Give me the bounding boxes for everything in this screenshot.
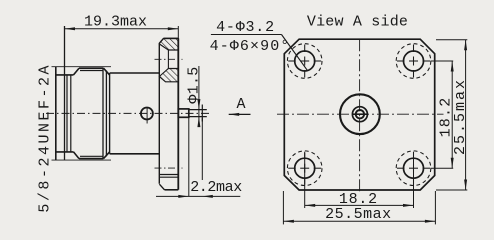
svg-text:Φ1.5: Φ1.5 [186, 66, 203, 103]
wire extension line 19.3max left / body edge [64, 26, 66, 160]
node bolt hole bottom-left [287, 151, 322, 186]
wire dimension line 25.5max bottom [283, 220, 435, 222]
wire body top edge [110, 72, 160, 74]
node view arrow A head [229, 113, 240, 116]
svg-text:4-Φ3.2: 4-Φ3.2 [216, 19, 275, 36]
node bolt hole top-left [287, 44, 322, 79]
wire dimension line 19.3max [65, 28, 179, 30]
node arrowhead 19.3max right [168, 27, 179, 30]
wire flange right face [177, 38, 179, 189]
wire thread cylinder top edge [79, 67, 104, 69]
node arrowhead 18.2 bottom right [403, 204, 414, 207]
wire dimension line 25.5max right [465, 40, 467, 190]
node arrowhead 2.2max right [202, 195, 213, 198]
wire thread runout line 2 [105, 71, 107, 157]
wire extension line 19.3max right [177, 26, 179, 38]
node arrowhead phi1.5 lower [197, 117, 200, 128]
wire extension line 25.5max bottom left [282, 191, 284, 224]
square flange outline [284, 39, 434, 190]
wire thread root line bottom [80, 155, 103, 157]
node dielectric circle [352, 107, 367, 122]
wire extension line 25.5max bottom right [434, 191, 436, 224]
node bolt hole bottom-right [396, 151, 431, 186]
wire flange bottom-left corner chamfer [159, 184, 164, 190]
wire view arrow A line [229, 113, 251, 115]
wire flange top edge [164, 37, 179, 39]
node arrowhead phi1.5 upper [197, 99, 200, 110]
wire thread exit chamfer top [104, 68, 110, 75]
svg-text:A: A [236, 96, 245, 113]
wire bolt hole centerline upper [155, 58, 183, 60]
wire thread major dia thin line bottom [52, 159, 112, 161]
wire flange top-left corner chamfer [159, 38, 163, 43]
wire center pin top edge [189, 109, 207, 111]
node connector outer circle [340, 94, 380, 134]
wire thread exit chamfer bottom [104, 152, 110, 159]
flange section hatch upper block [159, 38, 178, 50]
wire flange bottom edge [165, 189, 179, 191]
node arrowhead 18.2 right top [451, 61, 454, 72]
wire dimension line 18.2 bottom [305, 204, 414, 206]
wire extension line 18.2 bottom left [304, 153, 306, 208]
wire internal bore line 1 [66, 75, 68, 152]
node arrowhead 18.2 right bottom [451, 158, 454, 169]
node bolt hole top-right [396, 44, 431, 79]
svg-text:4-Φ6×90°: 4-Φ6×90° [210, 38, 291, 55]
svg-text:2.2max: 2.2max [190, 179, 242, 196]
node center pin circle [356, 110, 364, 118]
wire dimension line 2.2max [156, 195, 240, 197]
wire thread runout line 1 [102, 68, 104, 158]
wire countersink depth line [167, 50, 169, 69]
wire extension line 2.2max right [201, 118, 203, 180]
wire bolt hole centerline lower [155, 167, 183, 169]
wire dimension line phi1.5 [198, 66, 200, 125]
wire flange left face [158, 43, 160, 183]
wire extension line 18.2 bottom right [413, 153, 415, 208]
flange section hatch lower block [159, 69, 178, 82]
node solder hole circle on body [141, 108, 153, 120]
node arrowhead 19.3max left [65, 27, 76, 30]
wire body step edge [109, 73, 111, 154]
wire extension line 25.5max right top [436, 39, 467, 41]
wire square vertical centerline [359, 39, 361, 193]
wire solder hole vertical centerline [146, 107, 148, 124]
node arrowhead 18.2 bottom left [305, 204, 316, 207]
node arrowhead 25.5max right bottom [464, 180, 467, 191]
wire dimension line 18.2 right [451, 61, 453, 168]
node arrowhead 25.5max right top [464, 40, 467, 51]
svg-text:25.5max: 25.5max [452, 78, 469, 155]
wire internal bore line 2 [70, 75, 72, 152]
svg-text:25.5max: 25.5max [325, 206, 392, 223]
wire thread major dia thin line top [52, 66, 112, 68]
wire front ring bottom edge [56, 151, 74, 153]
svg-text:View A side: View A side [307, 14, 408, 31]
wire horizontal centerline left view [46, 112, 212, 114]
wire flange lower hole line 2 [159, 176, 178, 178]
wire extension line 2.2max left [188, 117, 190, 196]
wire leader line to top-left hole [282, 35, 308, 71]
node arrowhead 25.5max bottom left [283, 220, 294, 223]
wire front ring top edge [56, 74, 74, 76]
wire connector front face [55, 67, 57, 160]
wire extension line 25.5max right bottom [436, 189, 467, 191]
wire pin tip face [201, 105, 203, 122]
wire thread root line top [80, 70, 103, 72]
wire flange lower hole line 1 [159, 174, 178, 176]
wire thread entry chamfer top [74, 68, 80, 75]
dielectric insulator [178, 109, 189, 117]
node arrowhead 2.2max left [178, 195, 189, 198]
wire center contact slot [352, 113, 367, 115]
wire square horizontal centerline [277, 113, 444, 115]
wire thread entry chamfer bottom [74, 152, 80, 159]
wire extension line 18.2 right bottom [431, 167, 454, 169]
svg-text:5/8-24UNEF-2A: 5/8-24UNEF-2A [37, 63, 54, 213]
node arrowhead 25.5max bottom right [425, 220, 436, 223]
wire body bottom edge [110, 153, 160, 155]
wire fraction bar of hole note [211, 34, 282, 36]
wire thread cylinder bottom edge [79, 158, 104, 160]
wire center pin bottom edge [189, 116, 207, 118]
svg-text:19.3max: 19.3max [84, 13, 147, 30]
wire extension line 18.2 right top [431, 60, 454, 62]
